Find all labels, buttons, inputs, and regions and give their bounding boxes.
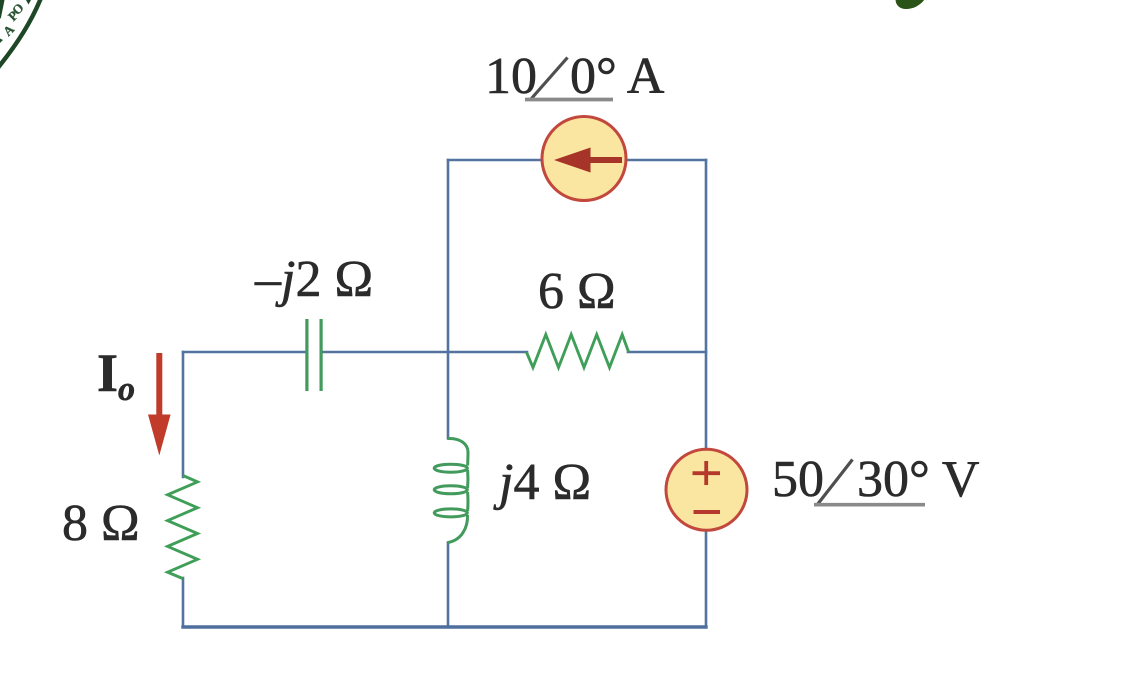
wire mid-left vertical (top loop left side) (447, 160, 450, 352)
svg-text:o: o (118, 371, 135, 408)
logo seal partial letter below A (0, 39, 3, 44)
voltage source minus sign (694, 510, 721, 514)
arrow Io (red, downward) (156, 353, 162, 417)
label angle symbol slash (voltage source) (817, 460, 853, 506)
voltage source 50V circle (666, 449, 747, 530)
voltage source plus sign (693, 461, 721, 485)
svg-text:I: I (97, 343, 118, 403)
wire middle horizontal left of capacitor (183, 351, 305, 354)
wire center vertical below inductor (447, 543, 450, 628)
wire middle horizontal capacitor to 6-ohm resistor (323, 351, 527, 354)
label angle symbol underline (voltage source) (814, 503, 925, 507)
wire middle horizontal right of 6-ohm resistor (628, 351, 706, 354)
inductor j4 ohm coil (434, 438, 468, 542)
current source arrow (554, 148, 591, 173)
wire left vertical below 8-ohm resistor (182, 578, 185, 627)
current source 10A circle (542, 117, 626, 201)
capacitor -j2 ohm left plate (305, 319, 308, 391)
label angle symbol slash (current source) (531, 58, 568, 100)
label angle symbol underline (current source) (525, 98, 613, 102)
svg-text:0° A: 0° A (570, 48, 665, 105)
svg-text:50: 50 (772, 451, 824, 508)
svg-text:10: 10 (485, 48, 537, 105)
logo seal outer arc (top-left, cropped) (0, 0, 43, 75)
resistor 6 ohm zigzag (526, 335, 628, 368)
wire left vertical above 8-ohm resistor (182, 352, 185, 477)
svg-text:j4 Ω: j4 Ω (493, 454, 591, 511)
svg-text:6 Ω: 6 Ω (538, 263, 616, 320)
logo blob top-right (896, 0, 926, 9)
svg-text:30° V: 30° V (857, 451, 979, 508)
wire bottom horizontal (183, 625, 706, 628)
capacitor -j2 ohm right plate (320, 319, 323, 391)
wire top horizontal (448, 159, 706, 162)
wire right vertical (705, 160, 708, 627)
wire center vertical above inductor (447, 352, 450, 439)
svg-text:–j2 Ω: –j2 Ω (254, 251, 373, 308)
logo seal corner stripe (0, 0, 3, 18)
resistor 8 ohm zigzag (168, 476, 198, 579)
logo seal small mark (26, 0, 31, 5)
svg-text:8 Ω: 8 Ω (62, 495, 140, 552)
